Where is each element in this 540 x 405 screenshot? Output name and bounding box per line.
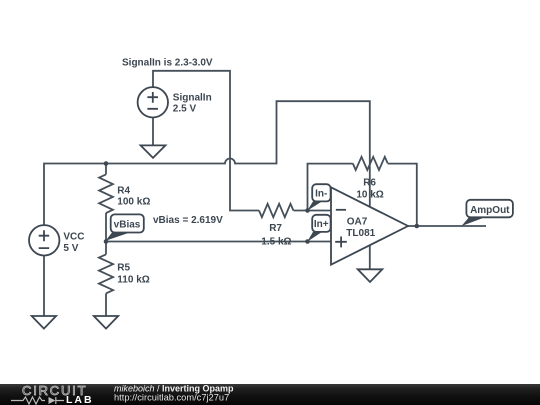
svg-text:10 kΩ: 10 kΩ bbox=[356, 190, 383, 201]
svg-text:2.5 V: 2.5 V bbox=[173, 104, 197, 115]
svg-text:LAB: LAB bbox=[66, 394, 94, 405]
svg-text:R7: R7 bbox=[269, 223, 282, 234]
svg-text:In+: In+ bbox=[314, 219, 329, 230]
svg-text:1.5 kΩ: 1.5 kΩ bbox=[261, 236, 291, 247]
svg-text:SignalIn is 2.3-3.0V: SignalIn is 2.3-3.0V bbox=[122, 57, 213, 68]
svg-text:vBias: vBias bbox=[114, 220, 141, 231]
svg-text:AmpOut: AmpOut bbox=[470, 205, 510, 216]
svg-text:vBias = 2.619V: vBias = 2.619V bbox=[153, 215, 223, 226]
svg-text:SignalIn: SignalIn bbox=[173, 92, 212, 103]
svg-text:In-: In- bbox=[315, 188, 327, 199]
svg-text:R5: R5 bbox=[117, 262, 130, 273]
svg-text:R4: R4 bbox=[117, 185, 130, 196]
svg-text:VCC: VCC bbox=[63, 232, 84, 243]
svg-text:TL081: TL081 bbox=[346, 228, 375, 239]
svg-text:OA7: OA7 bbox=[347, 216, 368, 227]
svg-text:5 V: 5 V bbox=[63, 243, 78, 254]
svg-text:100 kΩ: 100 kΩ bbox=[117, 197, 150, 208]
svg-text:R6: R6 bbox=[363, 177, 376, 188]
svg-text:http://circuitlab.com/c7j27u7: http://circuitlab.com/c7j27u7 bbox=[114, 393, 229, 403]
svg-text:110 kΩ: 110 kΩ bbox=[117, 274, 150, 285]
